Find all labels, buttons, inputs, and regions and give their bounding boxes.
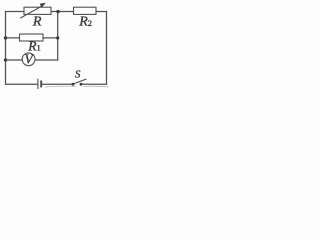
- wire top left segment: [6, 11, 25, 13]
- wire right vertical: [106, 12, 108, 85]
- junction node right R1: [56, 36, 59, 39]
- wire bottom right segment: [81, 83, 107, 85]
- wire voltmeter branch right: [35, 59, 58, 61]
- wire R1 branch right: [43, 37, 58, 39]
- battery positive plate: [37, 79, 39, 89]
- wire top right segment: [96, 11, 107, 13]
- rheostat R arrowhead: [40, 3, 46, 8]
- svg-text:S: S: [75, 69, 81, 81]
- resistor R2 body: [74, 7, 97, 14]
- switch contact left: [72, 83, 75, 86]
- junction node top: [56, 10, 59, 13]
- wire R1 branch left: [6, 37, 20, 39]
- battery negative plate: [40, 81, 42, 86]
- rheostat R arrow: [21, 6, 42, 18]
- scan artifact faint line: [45, 85, 109, 88]
- junction node left voltmeter: [4, 58, 7, 61]
- switch S lever: [73, 79, 86, 84]
- wire left vertical: [5, 12, 7, 85]
- svg-text:R2: R2: [78, 15, 92, 30]
- svg-text:R: R: [32, 15, 42, 30]
- rheostat R body: [24, 7, 51, 14]
- wire bottom left segment: [6, 83, 38, 85]
- wire battery to switch: [43, 83, 73, 85]
- wire middle vertical: [57, 12, 59, 61]
- resistor R1 body: [20, 34, 44, 41]
- voltmeter V: [22, 53, 35, 66]
- wire top middle segment: [51, 11, 74, 13]
- wire voltmeter branch left: [6, 59, 23, 61]
- junction node left R1: [4, 36, 7, 39]
- switch contact right: [80, 83, 83, 86]
